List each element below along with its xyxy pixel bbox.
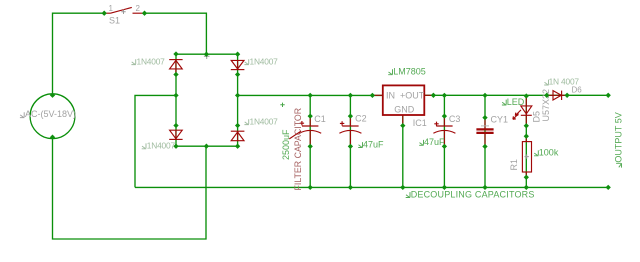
junction switch pin 2 xyxy=(142,11,147,16)
label D2 value 1N4007 xyxy=(244,59,249,64)
junction C1 top rail xyxy=(308,93,313,98)
wire C3 branch xyxy=(443,95,445,187)
svg-text:AC-(5V-18V): AC-(5V-18V) xyxy=(25,109,76,119)
junction C2 top rail xyxy=(348,93,353,98)
svg-text:2500uF: 2500uF xyxy=(281,129,291,160)
junction CY1 bottom pin xyxy=(482,144,487,149)
capacitor CY1 xyxy=(476,118,493,146)
svg-text:DECOUPLING CAPACITORS: DECOUPLING CAPACITORS xyxy=(411,190,535,200)
junction bridge right tap xyxy=(235,93,240,98)
junction R1 bottom pin xyxy=(524,175,529,180)
wire GND pin branch xyxy=(402,115,404,187)
diode D1 top-left 1N4007 xyxy=(169,60,182,73)
junction output rail end xyxy=(606,93,611,98)
junction bridge top rail right xyxy=(235,52,240,57)
label C3 value 47uF xyxy=(419,140,424,145)
wire bridge top rail xyxy=(176,53,237,55)
label D4 value 1N4007 xyxy=(244,119,249,124)
diode D3 bottom-left 1N4007 xyxy=(169,130,182,139)
junction C2 top pin xyxy=(348,113,353,118)
junction bridge top rail left xyxy=(173,51,178,56)
switch S1 origin cross xyxy=(121,10,125,14)
svg-text:IN: IN xyxy=(386,90,395,100)
label C2 value 47uF xyxy=(358,142,363,147)
svg-text:47uF: 47uF xyxy=(363,139,384,149)
label DECOUPLING CAPACITORS xyxy=(406,192,411,197)
svg-text:LED: LED xyxy=(507,97,525,107)
junction bridge top rail center xyxy=(204,52,209,57)
svg-text:OUTPUT 5V: OUTPUT 5V xyxy=(614,112,624,162)
svg-text:+OUT: +OUT xyxy=(400,90,425,100)
svg-text:LM7805: LM7805 xyxy=(393,67,426,77)
annotation pointer line xyxy=(289,131,300,139)
diode D6 1N4007 xyxy=(548,91,566,100)
junction C2 ground rail xyxy=(348,185,353,190)
wire CY1 branch xyxy=(484,95,486,187)
junction AC source top pin xyxy=(50,93,55,98)
wire AC bottom return xyxy=(53,138,207,240)
junction CY1 top pin xyxy=(482,115,487,120)
AC source V1 xyxy=(20,94,76,139)
wire bottom ground rail xyxy=(135,186,608,188)
junction bridge bottom rail right xyxy=(235,144,240,149)
junction D1 anode xyxy=(173,72,178,77)
svg-text:1N4007: 1N4007 xyxy=(250,57,279,67)
diode D2 top-right 1N4007 xyxy=(231,60,245,70)
junction regulator input xyxy=(370,93,375,98)
junction R1 ground rail xyxy=(524,185,529,190)
junction AC source bottom pin xyxy=(50,135,55,140)
junction LED cathode xyxy=(524,123,529,128)
label D1 value 1N4007 xyxy=(131,59,136,64)
wire switch to bridge top xyxy=(145,13,207,54)
capacitor C3 xyxy=(433,117,455,144)
diode D4 bottom-right 1N4007 xyxy=(231,131,245,141)
resistor R1 xyxy=(522,136,531,177)
switch S1 xyxy=(106,4,144,25)
junction R1 top pin xyxy=(524,134,529,139)
wire bridge left tap to ground rail xyxy=(135,95,176,187)
junction C3 ground rail xyxy=(442,185,447,190)
junction GND pin xyxy=(400,123,405,128)
svg-text:47uF: 47uF xyxy=(424,137,445,147)
label AC-(5V-18V) value xyxy=(20,112,25,117)
svg-text:1N4007: 1N4007 xyxy=(250,117,279,127)
svg-text:S1: S1 xyxy=(109,15,120,25)
svg-text:CY1: CY1 xyxy=(491,114,509,124)
junction D2 cathode xyxy=(235,72,240,77)
junction D3 top xyxy=(173,123,178,128)
wire C1 branch xyxy=(309,95,311,187)
svg-text:R1: R1 xyxy=(509,159,519,171)
svg-text:1: 1 xyxy=(109,4,114,13)
junction regulator output xyxy=(431,93,436,98)
junction ground rail end xyxy=(606,185,611,190)
svg-text:C3: C3 xyxy=(449,114,461,124)
voltage regulator IC1 LM7805 xyxy=(372,85,433,125)
svg-text:C2: C2 xyxy=(355,113,367,123)
junction C3 bottom pin xyxy=(442,144,447,149)
junction CY1 top rail xyxy=(482,93,487,98)
junction C2 bottom pin xyxy=(348,144,353,149)
label D6 value 1N 4007 xyxy=(544,80,549,85)
svg-text:100k: 100k xyxy=(539,148,559,158)
junction bridge left tap xyxy=(173,93,178,98)
junction C3 top rail xyxy=(442,93,447,98)
svg-text:1N4007: 1N4007 xyxy=(147,141,176,151)
label D3 value 1N4007 xyxy=(142,143,147,148)
svg-text:IC1: IC1 xyxy=(413,118,427,128)
junction D6 cathode xyxy=(564,93,569,98)
svg-text:1N4007: 1N4007 xyxy=(137,57,166,67)
junction bridge bottom rail left xyxy=(173,144,178,149)
svg-text:D6: D6 xyxy=(572,86,583,95)
junction GND ground rail xyxy=(400,185,405,190)
label D5 LED value xyxy=(502,100,507,105)
svg-text:2: 2 xyxy=(136,4,141,13)
label R1 value 100k xyxy=(534,150,539,155)
label 2500uF value (rotated) xyxy=(280,103,291,160)
junction C1 bottom pin xyxy=(308,144,313,149)
junction switch pin 1 xyxy=(102,11,107,16)
junction LED top rail xyxy=(524,93,529,98)
label OUTPUT 5V (rotated) xyxy=(614,112,624,167)
bridge center origin cross xyxy=(204,53,210,59)
wire regulator output rail xyxy=(424,94,608,96)
junction bridge bottom rail center xyxy=(204,144,209,149)
wire bridge left vertical xyxy=(175,54,177,146)
svg-text:FILTER CAPACITOR: FILTER CAPACITOR xyxy=(293,108,303,191)
wire bridge bottom rail xyxy=(176,145,238,147)
svg-text:C1: C1 xyxy=(314,114,326,124)
label IC1 value LM7805 xyxy=(388,69,393,74)
junction D4 top xyxy=(235,123,240,128)
capacitor C1 xyxy=(299,117,321,144)
svg-text:GND: GND xyxy=(394,104,415,114)
wire AC top to switch xyxy=(53,13,105,94)
LED D5 xyxy=(513,98,532,125)
junction D6 anode xyxy=(544,93,549,98)
wire top positive rail to regulator xyxy=(238,94,383,96)
junction CY1 ground rail xyxy=(482,185,487,190)
junction C1 top pin xyxy=(308,113,313,118)
junction C1 ground rail xyxy=(308,185,313,190)
wire bridge right vertical xyxy=(237,54,239,146)
wire C2 branch xyxy=(349,95,351,187)
wire LED / R1 branch xyxy=(525,95,527,187)
junction C3 top pin xyxy=(442,113,447,118)
capacitor C2 xyxy=(339,117,361,144)
